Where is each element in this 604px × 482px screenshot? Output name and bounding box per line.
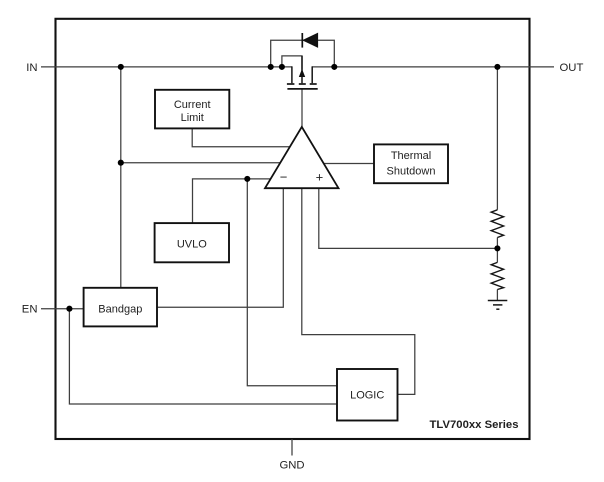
svg-text:LOGIC: LOGIC — [350, 390, 384, 402]
pass transistor Q1: bulk leg — [301, 56, 303, 83]
wire: Current Limit output to op-amp left side — [192, 128, 290, 146]
svg-text:Limit: Limit — [181, 112, 204, 124]
wire: body diode loop — [271, 40, 335, 67]
junction dot: bulk loop on IN rail — [279, 64, 285, 70]
wire: branch from IN riser to op-amp left side — [121, 162, 281, 164]
wire: OUT riser down to R1 — [496, 67, 498, 210]
pass transistor Q1: drain leg — [311, 66, 313, 83]
junction dot: OUT rail / divider riser — [494, 64, 500, 70]
junction dot: UVLO wire branch to LOGIC — [244, 176, 250, 182]
junction dot: diode right leg on OUT rail — [331, 64, 337, 70]
wire: LOGIC output loop up to gate node — [302, 188, 415, 394]
block: Current Limit — [155, 90, 229, 129]
wire: UVLO output to op-amp left side — [193, 179, 271, 223]
pass transistor Q1: bulk arrow — [299, 69, 305, 77]
svg-text:UVLO: UVLO — [177, 239, 207, 251]
junction dot: feedback tap — [494, 245, 500, 251]
svg-text:EN: EN — [22, 304, 38, 316]
body diode D1 (anode triangle) — [303, 33, 318, 47]
wire: op-amp non-inverting input to feedback tap — [319, 188, 498, 248]
junction dot: IN riser branch to op-amp — [118, 160, 124, 166]
svg-text:IN: IN — [26, 62, 37, 74]
wire: op-amp output to Q1 gate — [301, 89, 303, 127]
wire: EN pin to Bandgap — [41, 308, 84, 310]
svg-text:Thermal: Thermal — [391, 150, 431, 162]
junction dot: diode left leg on IN rail — [268, 64, 274, 70]
wire: op-amp right side to Thermal Shutdown — [324, 163, 374, 165]
block: Bandgap — [84, 288, 157, 327]
pass transistor Q1: source contact plate — [287, 83, 295, 85]
pass transistor Q1: gate plate — [287, 88, 317, 90]
wire: IN riser down to Bandgap — [120, 67, 122, 288]
block: UVLO — [155, 223, 229, 262]
pass transistor Q1: drain contact plate — [310, 83, 317, 85]
svg-text:Shutdown: Shutdown — [387, 165, 436, 177]
wire: GND pin stem — [291, 439, 293, 456]
wire: R2 to ground — [496, 290, 498, 301]
wire: IN rail (IN pin to Q1 source) — [41, 66, 292, 68]
block: Thermal Shutdown — [374, 144, 448, 183]
svg-text:TLV700xx Series: TLV700xx Series — [430, 419, 519, 431]
wire: OUT rail (Q1 drain to OUT pin) — [312, 66, 554, 68]
svg-text:GND: GND — [279, 460, 304, 472]
svg-text:Bandgap: Bandgap — [98, 304, 142, 316]
body diode D1 (cathode bar) — [301, 33, 303, 48]
svg-text:−: − — [280, 170, 288, 185]
wire: bulk connection loop — [282, 56, 302, 70]
wire: op-amp inverting input to Bandgap output — [157, 188, 283, 307]
ground (feedback divider) — [488, 301, 508, 310]
svg-text:Current: Current — [174, 99, 211, 111]
junction dot: EN wire branch to LOGIC — [66, 306, 72, 312]
block: LOGIC — [337, 369, 398, 421]
wire: EN branch down to LOGIC input 2 — [69, 309, 337, 404]
op-amp U1 (error amplifier) — [265, 127, 339, 188]
pass transistor Q1 (PMOS): source leg — [291, 66, 293, 83]
resistor R2 (lower feedback resistor) — [491, 262, 503, 289]
IC boundary box — [56, 19, 530, 439]
wire: R1 to R2 (feedback tap) — [496, 238, 498, 263]
wire: UVLO node down to LOGIC input 1 — [247, 179, 337, 386]
resistor R1 (upper feedback resistor) — [491, 210, 503, 238]
junction dot: IN rail / riser — [118, 64, 124, 70]
pass transistor Q1: bulk contact plate — [299, 83, 306, 85]
svg-text:+: + — [316, 170, 324, 185]
svg-text:OUT: OUT — [560, 62, 584, 74]
